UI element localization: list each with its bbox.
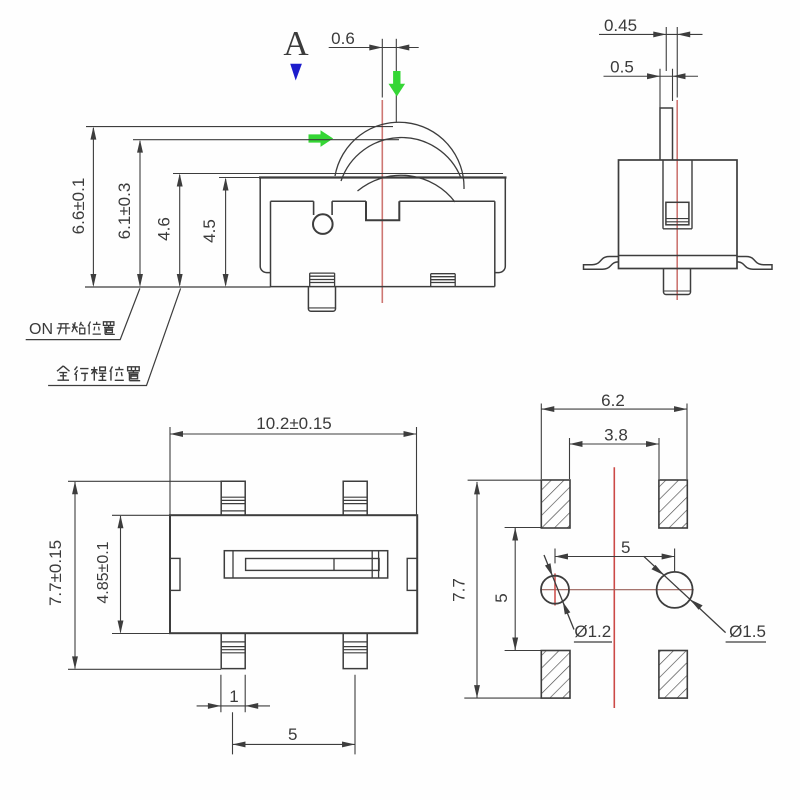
stem channel bottom bbox=[663, 228, 692, 230]
svg-text:3.8: 3.8 bbox=[604, 426, 628, 445]
actuator stem bbox=[660, 108, 673, 160]
left gull-wing terminal bbox=[584, 257, 619, 270]
red centreline of side view bbox=[381, 100, 383, 303]
hanzi cheng (full travel label) bbox=[91, 367, 106, 381]
dimension 6.1 top arrow bbox=[137, 140, 143, 153]
lever arc outer (free position) bbox=[335, 122, 464, 189]
dimension 4.5 bottom arrow bbox=[223, 274, 229, 287]
leader ON position label bbox=[29, 321, 53, 338]
pad top-right bbox=[659, 480, 687, 528]
hanzi wei2 (full travel label) bbox=[110, 366, 124, 380]
hanzi quan (full travel label) bbox=[57, 366, 70, 380]
dimension 5 horizontal arrows (land) bbox=[555, 554, 568, 560]
plan left side notch bbox=[170, 558, 180, 590]
hanzi shi (ON label) bbox=[72, 322, 85, 334]
dimension 10.2 left arrow bbox=[170, 431, 183, 437]
red centreline of end view bbox=[676, 100, 678, 300]
extension lines 5 vertical (land) bbox=[505, 528, 541, 651]
dimension 1 left arrow bbox=[208, 703, 221, 709]
extension line body centre bbox=[676, 27, 678, 98]
svg-text:7.7±0.15: 7.7±0.15 bbox=[46, 540, 65, 606]
extension line 6.1 top bbox=[133, 139, 399, 141]
svg-text:7.7: 7.7 bbox=[450, 578, 469, 602]
plan top-left tab stripes bbox=[221, 497, 245, 511]
base plate line bbox=[619, 255, 738, 257]
dimension 0.45 line bbox=[599, 33, 703, 35]
detent ball circle bbox=[313, 214, 333, 234]
slider slot outer bbox=[224, 551, 387, 578]
extension line lever edge bbox=[395, 39, 397, 123]
dimension 3.8 right arrow bbox=[646, 441, 659, 447]
dimension 0.45 right arrow bbox=[677, 31, 690, 37]
svg-text:0.5: 0.5 bbox=[610, 58, 634, 77]
dimension 5 extension lines (plan) bbox=[233, 675, 356, 755]
hanzi kai (ON label) bbox=[57, 324, 71, 335]
plan bottom-left tab bbox=[221, 633, 245, 668]
right gull-wing terminal bbox=[737, 257, 772, 270]
view direction triangle (blue) bbox=[290, 64, 302, 81]
pad top-left bbox=[541, 480, 570, 528]
extension line body right bbox=[416, 427, 418, 515]
contact block bbox=[666, 202, 689, 225]
dimension 6.6 bottom arrow bbox=[90, 274, 96, 287]
left terminal foot bbox=[308, 287, 335, 312]
svg-text:5: 5 bbox=[621, 538, 630, 557]
red centreline small hole bbox=[554, 573, 556, 605]
leader line Ø1.5 bbox=[644, 556, 726, 632]
dimension 5 line (plan) bbox=[233, 743, 356, 745]
hanzi xing (full travel label) bbox=[74, 366, 88, 380]
moulded body right side bbox=[494, 201, 496, 286]
dimension 0.5 line bbox=[604, 75, 699, 77]
dimension 4.5 line bbox=[225, 179, 227, 285]
svg-text:A: A bbox=[283, 24, 309, 63]
svg-text:0.45: 0.45 bbox=[604, 16, 637, 35]
dimension 6.1 bottom arrow bbox=[137, 274, 143, 287]
right terminal striped block bbox=[431, 274, 456, 287]
svg-text:4.85±0.1: 4.85±0.1 bbox=[95, 541, 112, 603]
plan body outline bbox=[170, 515, 417, 633]
dimension 3.8 line bbox=[570, 443, 660, 445]
svg-text:0.6: 0.6 bbox=[331, 29, 355, 48]
extension line stem right bbox=[672, 69, 674, 101]
moulded body left side bbox=[270, 201, 272, 286]
extension line tabs top bbox=[68, 480, 221, 482]
lever arc pressed (full travel) bbox=[358, 175, 456, 202]
dimension 7.7 arrows (land) bbox=[474, 481, 480, 494]
leader underline Ø1.2 bbox=[574, 641, 612, 643]
dimension 6.2 right arrow bbox=[674, 406, 687, 412]
dimension 5 left arrow (plan) bbox=[233, 741, 246, 747]
svg-text:1: 1 bbox=[229, 687, 238, 706]
plan top-left tab bbox=[221, 481, 245, 515]
dimension 6.6 top arrow bbox=[90, 127, 96, 140]
left terminal striped block bbox=[310, 273, 335, 287]
dimension 4.6 line bbox=[179, 175, 181, 285]
hanzi wei (ON label) bbox=[88, 322, 101, 335]
plan bottom-right tab bbox=[343, 633, 367, 668]
dimension 0.5 right arrow bbox=[673, 73, 686, 79]
view label A (blue) bbox=[283, 24, 309, 63]
dimension 0.6 right arrow bbox=[396, 45, 409, 51]
plan top-right tab bbox=[343, 481, 367, 515]
baseline (seating plane) bbox=[85, 286, 271, 288]
dimension 4.6 bottom arrow bbox=[177, 274, 183, 287]
lever arc inner (second position) bbox=[341, 138, 461, 181]
extension line body left bbox=[169, 427, 171, 515]
svg-text:6.2: 6.2 bbox=[601, 391, 625, 410]
extension ticks 5 horizontal bbox=[555, 549, 675, 572]
dimension 5 right arrow (plan) bbox=[342, 741, 355, 747]
dimension 7.7 line bbox=[74, 482, 76, 669]
dimension 6.1 line bbox=[139, 141, 141, 285]
extension lines 7.7 (land) bbox=[464, 480, 541, 698]
dimension 0.5 left arrow bbox=[647, 73, 660, 79]
leader line ON position bbox=[26, 288, 140, 339]
extension line 6.6 top bbox=[86, 126, 393, 128]
red vertical centreline (land pattern) bbox=[613, 467, 615, 708]
plan bottom-right tab stripes bbox=[343, 642, 367, 653]
svg-text:6.1±0.3: 6.1±0.3 bbox=[115, 183, 134, 240]
dimension 4.6 top arrow bbox=[177, 174, 183, 187]
green push arrow (down) bbox=[389, 71, 406, 97]
dimension 4.85 line bbox=[120, 516, 122, 633]
leader full travel line bbox=[48, 288, 181, 385]
extension line body centre (black upper part) bbox=[381, 39, 383, 98]
left terminal foot seam bbox=[308, 307, 335, 309]
dimension 6.2 line bbox=[541, 408, 687, 410]
dimension 7.7 top arrow bbox=[72, 481, 78, 494]
plan top-right tab stripes bbox=[343, 497, 367, 511]
hanzi zhi (ON label) bbox=[103, 322, 114, 335]
extension line 4.6 (cover top flange) bbox=[173, 173, 503, 175]
dimension 10.2 line bbox=[170, 433, 417, 435]
moulded body top edge segments bbox=[271, 200, 495, 202]
leader arrows Ø1.2 bbox=[545, 563, 553, 576]
contact block seam lines bbox=[666, 219, 689, 222]
switch cover top edge bbox=[259, 176, 507, 178]
leader underline Ø1.5 bbox=[726, 641, 766, 643]
leader arrows Ø1.5 bbox=[651, 565, 664, 575]
green slide arrow (right) bbox=[309, 130, 334, 147]
dimension 0.45 left arrow bbox=[653, 31, 666, 37]
dimension 10.2 right arrow bbox=[404, 431, 417, 437]
extension line body bottom (plan) bbox=[112, 633, 170, 635]
slider knob bbox=[246, 559, 380, 571]
dimension 1 line bbox=[197, 705, 270, 707]
plan right side notch bbox=[407, 558, 417, 590]
plan bottom-left tab stripes bbox=[221, 642, 245, 653]
centre notch bbox=[366, 201, 399, 220]
dimension 6.6 line bbox=[92, 128, 94, 285]
svg-text:Ø1.5: Ø1.5 bbox=[729, 622, 766, 641]
extension lines 3.8 bbox=[570, 438, 660, 479]
svg-text:6.6±0.1: 6.6±0.1 bbox=[69, 178, 88, 235]
slot right inner walls bbox=[372, 551, 378, 578]
bottom post seam bbox=[664, 290, 691, 292]
dimension 1 right arrow bbox=[245, 703, 258, 709]
extension lines 6.2 bbox=[541, 404, 687, 480]
hole Ø1.2 bbox=[541, 576, 569, 604]
svg-text:10.2±0.15: 10.2±0.15 bbox=[256, 414, 332, 433]
extension line stem left bbox=[659, 69, 661, 108]
slot left inner wall bbox=[232, 551, 234, 578]
dimension 5 vertical line (land) bbox=[514, 528, 516, 651]
dimension 1 extension lines bbox=[221, 675, 245, 713]
pad bottom-right bbox=[659, 651, 687, 699]
extension line body top (plan) bbox=[112, 514, 170, 516]
bottom locating post bbox=[664, 269, 691, 295]
switch cover right side with rounded foot bbox=[495, 178, 505, 273]
dimension 3.8 left arrow bbox=[570, 441, 583, 447]
dimension 4.85 top arrow bbox=[118, 515, 124, 528]
hanzi zhi2 (full travel label) bbox=[128, 367, 141, 381]
dimension 0.6 line bbox=[329, 47, 419, 49]
extension line tabs bottom bbox=[68, 668, 221, 670]
dark red horizontal centreline through holes bbox=[541, 589, 694, 591]
switch cover left side with rounded foot bbox=[260, 178, 270, 273]
dimension 5 vertical arrows (land) bbox=[512, 528, 518, 541]
svg-text:5: 5 bbox=[492, 593, 511, 602]
svg-text:ON: ON bbox=[29, 321, 53, 338]
dimension 7.7 line (land) bbox=[476, 482, 478, 698]
svg-text:5: 5 bbox=[288, 725, 297, 744]
dimension 4.85 bottom arrow bbox=[118, 621, 124, 634]
dimension 4.5 top arrow bbox=[223, 178, 229, 191]
moulded body bottom bbox=[271, 286, 495, 288]
pad bottom-left bbox=[541, 651, 570, 699]
dimension 5 horizontal line (land) bbox=[555, 556, 675, 558]
stem channel walls bbox=[663, 160, 692, 229]
svg-text:4.5: 4.5 bbox=[200, 219, 219, 243]
svg-text:Ø1.2: Ø1.2 bbox=[574, 622, 611, 641]
slider knob divider bbox=[333, 559, 335, 571]
extension line stem centre bbox=[665, 27, 667, 71]
body outline bbox=[619, 160, 738, 269]
dimension 0.6 left arrow bbox=[369, 45, 382, 51]
detent notch walls bbox=[314, 201, 333, 215]
svg-text:4.6: 4.6 bbox=[155, 217, 174, 241]
hole Ø1.5 bbox=[657, 572, 693, 608]
leader line Ø1.2 bbox=[544, 555, 574, 630]
dimension 7.7 bottom arrow bbox=[72, 656, 78, 669]
dimension 6.2 left arrow bbox=[541, 406, 554, 412]
extension line 4.5 (body top) bbox=[219, 177, 259, 179]
